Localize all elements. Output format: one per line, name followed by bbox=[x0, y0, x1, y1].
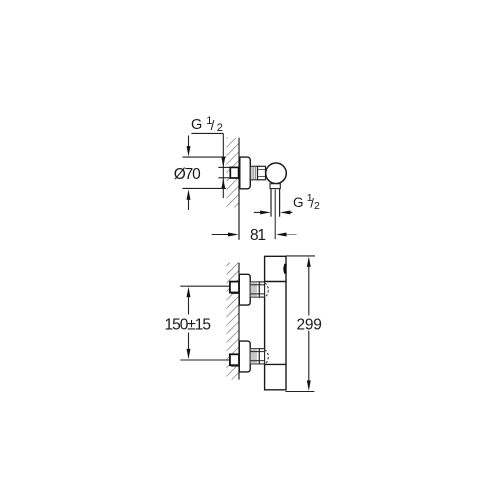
extension line (escutcheon top) bbox=[182, 156, 226, 158]
svg-text:G: G bbox=[293, 195, 304, 210]
top union bbox=[259, 282, 264, 297]
dim: 150±15 bbox=[187, 287, 191, 298]
top supply nut bbox=[230, 282, 239, 293]
dim: G 1/2 (bottom) leader bbox=[254, 211, 261, 213]
wall surface line bbox=[238, 263, 240, 380]
hex connector bbox=[258, 166, 266, 180]
svg-text:G: G bbox=[191, 117, 202, 133]
body lower division bbox=[265, 363, 286, 365]
supply nut bbox=[230, 167, 238, 178]
bottom thread zone bbox=[250, 349, 259, 364]
wall (hatched) top view bbox=[227, 138, 240, 208]
dim: G 1/2 (top) bar + leaders bbox=[191, 132, 223, 134]
svg-text:Ø70: Ø70 bbox=[174, 166, 201, 183]
supply pipe stub lines bbox=[218, 166, 230, 168]
threaded nipple bbox=[250, 166, 257, 180]
escutcheon (side view) bbox=[240, 157, 251, 189]
top thread zone bbox=[250, 282, 259, 297]
bottom escutcheon bbox=[239, 341, 250, 372]
svg-text:2: 2 bbox=[217, 122, 223, 134]
top dome (dashed) bbox=[265, 283, 269, 296]
Ø70 lower leader bbox=[187, 189, 191, 200]
ext line (top supply) bbox=[180, 285, 230, 287]
dim: 299 bbox=[286, 255, 315, 257]
svg-text:/: / bbox=[211, 118, 215, 133]
neck below circle bbox=[270, 184, 280, 189]
handle mark (dark blob top right) bbox=[285, 264, 286, 274]
pipe centerline bbox=[274, 190, 276, 240]
thermostat body bbox=[265, 256, 286, 390]
svg-text:81: 81 bbox=[250, 227, 266, 244]
top escutcheon bbox=[239, 274, 250, 305]
ext line (bottom supply) bbox=[180, 359, 230, 361]
dim: 81 bbox=[212, 234, 229, 236]
wall surface line / 81-dim extension bbox=[238, 138, 240, 240]
extension line (escutcheon bottom) bbox=[182, 187, 226, 189]
bottom dome (dashed) bbox=[265, 350, 269, 363]
valve body circle bbox=[266, 163, 287, 184]
bottom supply nut bbox=[230, 354, 239, 365]
bottom union bbox=[259, 349, 264, 364]
wall (hatched) bottom view bbox=[227, 263, 240, 380]
svg-text:2: 2 bbox=[314, 200, 320, 212]
svg-text:150±15: 150±15 bbox=[165, 316, 212, 333]
body cap division bbox=[265, 281, 286, 283]
pipe walls bbox=[270, 189, 272, 217]
